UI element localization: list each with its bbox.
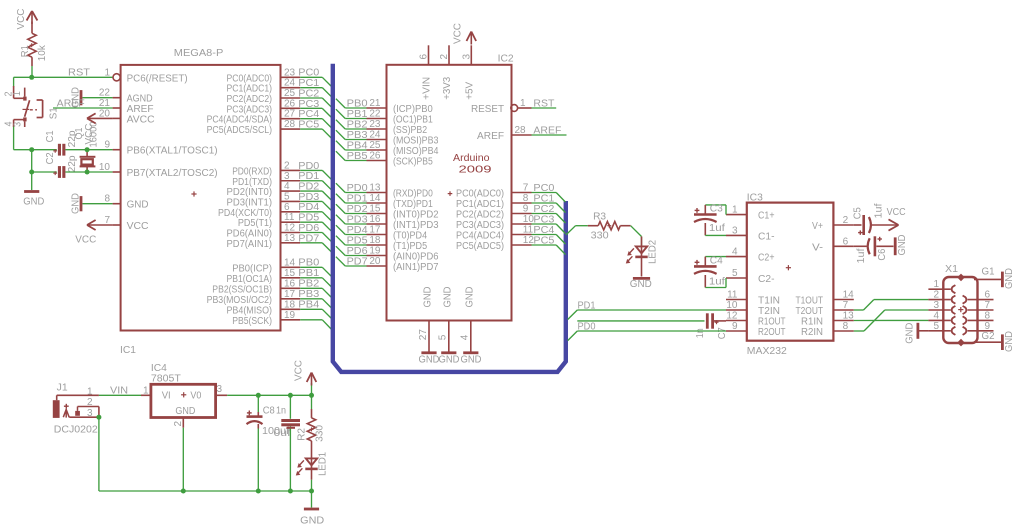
svg-text:8: 8	[523, 193, 529, 204]
IC1 pin 6 stub + wire PD4 to bus	[281, 202, 332, 221]
svg-text:(AIN0)PD6: (AIN0)PD6	[393, 252, 439, 263]
svg-text:(INT0)PD2: (INT0)PD2	[393, 210, 439, 221]
IC U1 IC1 MEGA8-P body	[99, 48, 281, 356]
svg-text:PD2(INT0): PD2(INT0)	[227, 187, 273, 198]
svg-text:PC0(ADC0): PC0(ADC0)	[227, 73, 273, 84]
svg-text:PD4: PD4	[347, 225, 368, 236]
svg-text:C4: C4	[710, 255, 723, 266]
svg-text:3: 3	[461, 54, 472, 60]
IC2 top pins 6/2/3 + power VCC	[419, 23, 477, 100]
svg-text:GND: GND	[1004, 331, 1015, 352]
svg-text:PB4: PB4	[298, 300, 319, 311]
capacitor C8 100uf	[247, 395, 291, 491]
ground AGND (pin 22)	[71, 87, 113, 108]
svg-text:26: 26	[284, 98, 296, 109]
IC1 pin 15 stub + wire PB1 to bus	[281, 268, 332, 287]
junction rail/C9	[288, 489, 293, 494]
svg-text:7: 7	[523, 183, 529, 194]
svg-text:2: 2	[87, 397, 93, 408]
wire PD6 bus to IC2	[336, 246, 368, 257]
svg-text:20: 20	[99, 108, 111, 119]
svg-text:V+: V+	[812, 221, 823, 232]
svg-text:PC2: PC2	[298, 88, 319, 99]
svg-text:(RXD)PD0: (RXD)PD0	[393, 189, 433, 200]
svg-text:R1: R1	[20, 45, 31, 57]
capacitor C7 1n	[695, 313, 728, 339]
svg-text:GND: GND	[905, 323, 916, 344]
svg-text:PD6(AIN0): PD6(AIN0)	[227, 229, 273, 240]
svg-text:23: 23	[284, 67, 296, 78]
svg-text:C7: C7	[717, 327, 728, 339]
svg-text:AREF: AREF	[533, 126, 561, 137]
svg-text:8: 8	[843, 321, 849, 332]
svg-text:9: 9	[732, 321, 738, 332]
svg-text:PC5: PC5	[298, 119, 319, 130]
wire T2OUT to X1 pin2	[854, 300, 929, 310]
svg-text:PB6(XTAL1/TOSC1): PB6(XTAL1/TOSC1)	[127, 146, 218, 157]
svg-text:7805T: 7805T	[151, 374, 181, 385]
IC1 pin 11 stub + wire PD5 to bus	[281, 212, 332, 231]
svg-text:13: 13	[284, 233, 296, 244]
svg-text:VCC: VCC	[16, 9, 27, 30]
svg-text:PC1(ADC1): PC1(ADC1)	[456, 199, 504, 210]
svg-text:(MOSI)PB3: (MOSI)PB3	[393, 136, 439, 147]
IC1 pin 3 stub + wire PD1 to bus	[281, 171, 332, 190]
svg-text:PB1(OC1A): PB1(OC1A)	[227, 274, 273, 285]
svg-text:Arduino: Arduino	[453, 153, 490, 164]
svg-text:V-: V-	[812, 242, 823, 253]
svg-text:7: 7	[104, 215, 110, 226]
svg-text:14: 14	[284, 257, 296, 268]
svg-text:PD0: PD0	[347, 183, 368, 194]
wire S1 to C1/C2/GND	[14, 127, 32, 191]
svg-text:10: 10	[99, 162, 111, 173]
svg-text:5: 5	[284, 191, 290, 202]
svg-text:1n: 1n	[695, 328, 706, 338]
svg-text:C5: C5	[853, 207, 864, 219]
svg-text:(SS)PB2: (SS)PB2	[393, 125, 427, 136]
svg-text:1n: 1n	[276, 406, 286, 417]
junction rail/C8	[256, 489, 261, 494]
svg-text:PD1: PD1	[347, 193, 368, 204]
svg-text:PD1: PD1	[298, 171, 319, 182]
svg-text:PD0: PD0	[578, 321, 596, 332]
svg-text:(T0)PD4: (T0)PD4	[393, 231, 427, 242]
svg-text:PD1(TXD): PD1(TXD)	[232, 177, 272, 188]
svg-text:11: 11	[727, 290, 738, 301]
svg-text:C1+: C1+	[758, 211, 775, 222]
svg-text:C1-: C1-	[758, 231, 775, 242]
svg-text:7: 7	[843, 300, 849, 311]
svg-text:15: 15	[284, 268, 296, 279]
svg-text:14: 14	[369, 193, 381, 204]
IC IC4 7805T body	[141, 363, 227, 428]
svg-text:2: 2	[843, 215, 849, 226]
capacitor C4 1uf	[694, 255, 726, 287]
svg-text:GND: GND	[71, 193, 82, 214]
svg-text:330: 330	[591, 231, 609, 242]
svg-text:25: 25	[284, 88, 296, 99]
IC1 pin 12 stub + wire PD6 to bus	[281, 223, 332, 242]
svg-text:PC3(ADC3): PC3(ADC3)	[456, 220, 504, 231]
svg-text:12: 12	[284, 223, 296, 234]
svg-text:19: 19	[284, 310, 296, 321]
svg-text:R2IN: R2IN	[801, 327, 823, 338]
capacitor C3 1uf	[694, 203, 726, 235]
connector X1 (DB9)	[928, 264, 993, 347]
svg-text:1: 1	[143, 386, 149, 397]
svg-text:PD0: PD0	[298, 161, 319, 172]
svg-text:GND: GND	[419, 355, 440, 366]
svg-text:PD3: PD3	[347, 214, 368, 225]
svg-text:6: 6	[985, 290, 991, 301]
svg-text:GND: GND	[439, 355, 460, 366]
junction rail/7805 pin2	[181, 489, 186, 494]
svg-text:5: 5	[732, 268, 738, 279]
svg-text:GND: GND	[300, 516, 324, 526]
svg-text:1uf: 1uf	[709, 223, 725, 234]
power VCC (regulator output)	[294, 360, 317, 395]
svg-text:+VIN: +VIN	[422, 77, 433, 100]
crystal Q1 16000	[74, 121, 100, 172]
svg-text:PB7(XTAL2/TOSC2): PB7(XTAL2/TOSC2)	[127, 168, 218, 179]
svg-text:PB2: PB2	[298, 279, 319, 290]
ground GND (LED2)	[630, 278, 652, 290]
svg-text:C2-: C2-	[758, 274, 775, 285]
svg-text:PD5: PD5	[298, 213, 319, 224]
wire R3 to LED2	[631, 226, 642, 247]
ground GND (below S1)	[23, 192, 44, 208]
wire net RST	[14, 66, 113, 87]
svg-text:PB1: PB1	[347, 109, 368, 120]
IC1 pin 23 stub + wire PC0 to bus	[281, 67, 332, 86]
svg-text:GND: GND	[1004, 268, 1015, 289]
svg-text:PB4: PB4	[347, 140, 368, 151]
svg-text:21: 21	[99, 98, 111, 109]
svg-text:5: 5	[933, 321, 939, 332]
svg-text:4: 4	[284, 181, 290, 192]
svg-text:VI: VI	[162, 390, 171, 401]
svg-text:GND: GND	[423, 287, 434, 308]
IC1 pin 4 stub + wire PD2 to bus	[281, 181, 332, 200]
svg-text:1: 1	[87, 386, 93, 397]
IC2 pin 12 wire PC5 to bus	[512, 235, 566, 255]
svg-text:PC2(ADC2): PC2(ADC2)	[227, 94, 273, 105]
svg-text:PD5: PD5	[347, 235, 368, 246]
svg-text:330: 330	[315, 424, 326, 441]
svg-text:IC4: IC4	[151, 363, 167, 374]
svg-text:18: 18	[284, 299, 296, 310]
IC2 AREF pin 28 + wire AREF	[512, 125, 567, 137]
svg-text:G2: G2	[982, 331, 995, 342]
svg-text:X1: X1	[945, 264, 958, 275]
svg-text:PD6: PD6	[347, 246, 368, 257]
capacitor C2 22p	[32, 152, 78, 178]
svg-text:3: 3	[217, 384, 223, 395]
svg-text:1: 1	[933, 279, 939, 290]
capacitor C9 100n	[281, 395, 300, 491]
power VCC (pin 20 AVCC)	[84, 113, 113, 144]
svg-text:2: 2	[173, 421, 184, 427]
IC2 left pin stubs/names/numbers	[367, 98, 439, 273]
junction crystal top	[85, 147, 90, 152]
svg-text:23: 23	[369, 119, 381, 130]
wire PB5 bus to IC2	[336, 151, 368, 162]
svg-text:LED1: LED1	[318, 451, 329, 475]
IC2 pin 8 wire PC1 to bus	[512, 193, 566, 213]
wire C1 to crystal/pin9	[65, 149, 112, 151]
svg-text:2: 2	[933, 290, 939, 301]
svg-text:GND: GND	[127, 200, 149, 211]
svg-text:6: 6	[284, 202, 290, 213]
svg-text:C3: C3	[710, 203, 723, 214]
svg-text:22p: 22p	[67, 155, 78, 172]
svg-text:PC4(ADC4/SDA): PC4(ADC4/SDA)	[207, 115, 272, 126]
svg-text:PB2(SS/OC1B): PB2(SS/OC1B)	[212, 284, 272, 295]
wire bus to R3	[566, 226, 588, 235]
IC IC2 Arduino 2009 body	[387, 54, 515, 321]
wire to C7 (R1OUT)	[577, 320, 704, 322]
svg-text:IC2: IC2	[498, 54, 514, 65]
svg-text:1uf: 1uf	[709, 276, 725, 287]
wire net VIN	[99, 386, 141, 397]
svg-text:RST: RST	[68, 68, 90, 79]
svg-text:(MISO)PB4: (MISO)PB4	[393, 146, 439, 157]
svg-text:4: 4	[732, 247, 738, 258]
svg-text:PC4(ADC4): PC4(ADC4)	[456, 231, 504, 242]
wire PB0 bus to IC2	[336, 98, 368, 109]
svg-text:VCC: VCC	[453, 23, 464, 44]
svg-text:19: 19	[369, 246, 381, 257]
svg-text:6: 6	[419, 54, 430, 60]
svg-text:1uf: 1uf	[856, 248, 867, 263]
wire net AREF (pin 21)	[53, 98, 113, 109]
svg-text:VCC: VCC	[84, 124, 95, 145]
svg-text:R1IN: R1IN	[801, 317, 823, 328]
wire PD1 bus to T2IN	[568, 300, 726, 319]
svg-text:VIN: VIN	[110, 386, 128, 397]
junction (C1 row)	[29, 147, 34, 152]
junction (C2 row)	[29, 170, 34, 175]
svg-text:MEGA8-P: MEGA8-P	[174, 48, 224, 59]
svg-text:MAX232: MAX232	[747, 346, 787, 357]
wire C2 to crystal/pin10	[65, 171, 112, 173]
wire R1IN to X1 pin4	[854, 319, 929, 321]
svg-text:PC1(ADC1): PC1(ADC1)	[227, 84, 273, 95]
IC2 pin 7 wire PC0 to bus	[512, 183, 566, 203]
LED LED2	[626, 237, 659, 277]
svg-text:21: 21	[369, 98, 381, 109]
svg-text:T2IN: T2IN	[758, 306, 780, 317]
svg-text:15: 15	[369, 204, 381, 215]
svg-text:11: 11	[284, 212, 295, 223]
svg-text:GND: GND	[630, 279, 652, 290]
svg-text:13: 13	[369, 183, 381, 194]
svg-text:4: 4	[460, 334, 471, 340]
svg-text:PB3(MOSI/OC2): PB3(MOSI/OC2)	[207, 295, 272, 306]
IC2 pin 11 wire PC4 to bus	[512, 225, 566, 245]
svg-text:T1OUT: T1OUT	[796, 296, 824, 307]
ground GND (pin 8)	[71, 193, 113, 214]
IC1 pin 2 stub + wire PD0 to bus	[281, 160, 332, 179]
svg-text:PB3: PB3	[298, 289, 319, 300]
svg-text:PC1: PC1	[298, 78, 319, 89]
IC1 pin 17 stub + wire PB3 to bus	[281, 289, 332, 308]
svg-text:T1IN: T1IN	[758, 296, 780, 307]
svg-text:PB1: PB1	[298, 268, 319, 279]
svg-text:PD3(INT1): PD3(INT1)	[227, 197, 273, 208]
svg-text:(OC1)PB1: (OC1)PB1	[393, 115, 433, 126]
svg-text:GND: GND	[897, 235, 908, 256]
svg-text:1uf: 1uf	[873, 203, 884, 218]
svg-text:3: 3	[87, 408, 93, 419]
svg-text:18: 18	[369, 235, 381, 246]
svg-text:RST: RST	[533, 99, 554, 110]
svg-text:IC3: IC3	[747, 192, 763, 203]
svg-text:+3V3: +3V3	[442, 76, 453, 99]
svg-text:(AIN1)PD7: (AIN1)PD7	[393, 262, 439, 273]
svg-text:3: 3	[12, 122, 23, 127]
wire PB3 bus to IC2	[336, 130, 368, 141]
ground G1 (X1 shield top)	[974, 267, 1015, 289]
svg-text:AVCC: AVCC	[127, 114, 155, 125]
wire PB4 bus to IC2	[336, 140, 368, 151]
svg-text:GND: GND	[465, 287, 476, 308]
resistor R3 330	[588, 211, 631, 241]
junction VO/C9	[288, 393, 293, 398]
svg-text:6: 6	[843, 236, 849, 247]
svg-text:PB5(SCK): PB5(SCK)	[232, 316, 272, 327]
svg-text:10: 10	[726, 300, 738, 311]
svg-text:4: 4	[933, 310, 939, 321]
svg-text:25: 25	[369, 140, 381, 151]
ground GND (X1 pin5)	[905, 323, 918, 344]
svg-text:3: 3	[732, 225, 738, 236]
svg-text:9: 9	[104, 140, 110, 151]
junction VO/C8	[256, 393, 261, 398]
IC1 pin 5 stub + wire PD3 to bus	[281, 191, 332, 210]
svg-text:DCJ0202: DCJ0202	[54, 424, 98, 435]
IC1 pin 27 stub + wire PC4 to bus	[281, 109, 332, 128]
svg-text:16: 16	[284, 278, 296, 289]
IC1 right pin names	[207, 73, 272, 326]
svg-text:PC3: PC3	[533, 214, 554, 225]
svg-text:C2+: C2+	[758, 253, 775, 264]
svg-text:PB5: PB5	[347, 151, 368, 162]
svg-text:PC5(ADC5/SCL): PC5(ADC5/SCL)	[207, 125, 272, 136]
svg-text:G1: G1	[982, 267, 995, 278]
wire PD5 bus to IC2	[336, 235, 368, 246]
svg-text:24: 24	[369, 130, 381, 141]
svg-text:VCC: VCC	[887, 207, 906, 218]
svg-text:PD4(XCK/T0): PD4(XCK/T0)	[218, 208, 272, 219]
IC2 pin 9 wire PC2 to bus	[512, 204, 566, 224]
svg-text:PB0: PB0	[298, 258, 319, 269]
svg-text:PD2: PD2	[298, 182, 319, 193]
junction J1 pins 2/3	[96, 415, 101, 420]
svg-text:PD5(T1): PD5(T1)	[238, 218, 272, 229]
IC1 pin 16 stub + wire PB2 to bus	[281, 278, 332, 297]
svg-text:27: 27	[284, 109, 296, 120]
svg-text:PC4: PC4	[298, 109, 319, 120]
svg-text:PD7(AIN1): PD7(AIN1)	[227, 239, 273, 250]
svg-text:7: 7	[985, 300, 991, 311]
svg-text:PC5(ADC5): PC5(ADC5)	[456, 241, 504, 252]
svg-text:PC6(/RESET): PC6(/RESET)	[127, 73, 188, 84]
svg-text:VCC: VCC	[75, 234, 96, 245]
svg-text:1: 1	[520, 98, 526, 109]
svg-text:LED2: LED2	[648, 239, 659, 263]
svg-text:PB4(MISO): PB4(MISO)	[227, 305, 273, 316]
svg-text:(INT1)PD3: (INT1)PD3	[393, 220, 439, 231]
svg-text:PC5: PC5	[533, 235, 554, 246]
IC2 right pin names	[456, 104, 504, 252]
svg-text:GND: GND	[461, 355, 482, 366]
svg-text:17: 17	[369, 225, 381, 236]
wire PD2 bus to IC2	[336, 204, 368, 215]
junction VO/VCC/R2	[309, 393, 314, 398]
svg-text:20: 20	[369, 256, 381, 267]
IC1 pin 25 stub + wire PC2 to bus	[281, 88, 332, 107]
svg-text:PD2: PD2	[347, 204, 368, 215]
svg-text:26: 26	[369, 151, 381, 162]
svg-text:PC0(ADC0): PC0(ADC0)	[456, 189, 504, 200]
junction RST	[29, 75, 34, 80]
IC1 pin 19 stub + wire (pin19) to bus	[281, 310, 332, 330]
svg-text:C2: C2	[45, 152, 56, 164]
svg-text:R2OUT: R2OUT	[758, 327, 786, 338]
svg-text:9: 9	[523, 204, 529, 215]
IC2 bottom GND pins 27/5/4 + ground bars	[418, 287, 482, 366]
svg-text:PD6: PD6	[298, 223, 319, 234]
svg-text:PC0: PC0	[533, 183, 554, 194]
svg-text:13: 13	[843, 311, 855, 322]
wire PD3 bus to IC2	[336, 214, 368, 225]
svg-text:0uf: 0uf	[274, 428, 291, 439]
switch S1	[3, 86, 59, 127]
svg-text:PC2(ADC2): PC2(ADC2)	[456, 210, 504, 221]
capacitor C1 22p	[32, 130, 78, 156]
power symbol VCC (top of R1)	[16, 9, 37, 30]
svg-text:RESET: RESET	[471, 104, 504, 115]
LED LED1	[296, 441, 329, 491]
wire PD4 bus to IC2	[336, 225, 368, 236]
svg-text:(ICP)PB0: (ICP)PB0	[393, 104, 433, 115]
svg-text:2: 2	[439, 54, 450, 60]
svg-text:PB2: PB2	[347, 119, 368, 130]
svg-text:PD0(RXD): PD0(RXD)	[232, 166, 272, 177]
IC IC3 MAX232 body	[726, 192, 854, 357]
svg-text:V0: V0	[190, 390, 201, 401]
IC2 pin 10 wire PC3 to bus	[512, 214, 566, 234]
svg-text:C8: C8	[263, 406, 275, 417]
junction rail/LED1	[309, 489, 314, 494]
svg-text:27: 27	[418, 329, 429, 341]
IC1 pin 18 stub + wire PB4 to bus	[281, 299, 332, 318]
wire PD0 bus to IC2	[336, 183, 368, 194]
svg-text:8: 8	[104, 194, 110, 205]
power VCC (pin 7)	[75, 220, 112, 245]
IC2 RESET pin 1 + wire RST	[511, 98, 556, 111]
bus (blue)	[333, 64, 566, 372]
svg-text:PB0(ICP): PB0(ICP)	[232, 263, 272, 274]
svg-text:2: 2	[284, 160, 290, 171]
capacitor C5 1uf + power VCC	[853, 203, 906, 235]
svg-text:PC4: PC4	[533, 225, 554, 236]
svg-text:PB3: PB3	[347, 130, 368, 141]
svg-text:24: 24	[284, 78, 296, 89]
svg-text:PC0: PC0	[298, 68, 319, 79]
